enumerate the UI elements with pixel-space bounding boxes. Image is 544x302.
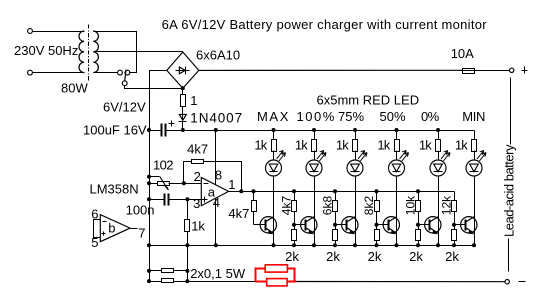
wire pin7 stub: [131, 228, 138, 230]
svg-text:6A 6V/12V Battery power charge: 6A 6V/12V Battery power charger with cur…: [162, 17, 488, 32]
label 1k: [419, 138, 432, 153]
trimmer R2 wiper arrow: [150, 177, 169, 191]
label 2k: [368, 249, 382, 264]
node: [147, 279, 151, 283]
resistor R14 1k: [436, 140, 441, 152]
label Lead-acid battery: [502, 144, 517, 237]
label pin3: [193, 196, 200, 211]
switch S1 lever: [125, 70, 126, 81]
wire: [33, 31, 85, 33]
label 6x5mm RED LED: [317, 92, 420, 107]
wire: [182, 107, 184, 115]
transistor Q1: [260, 217, 276, 234]
wire: [438, 131, 440, 140]
wire: [376, 212, 378, 225]
svg-text:6k8: 6k8: [321, 196, 335, 216]
capacitor C2 100n plates: [165, 194, 169, 206]
svg-text:4k7: 4k7: [228, 206, 249, 221]
wire: [314, 151, 316, 161]
node base: [375, 223, 379, 227]
wire: [33, 72, 85, 74]
op-amp U1b input tie: [94, 220, 101, 238]
wire: [253, 192, 255, 201]
wire: [150, 281, 162, 283]
wire: [94, 51, 183, 53]
resistor R30 2k: [452, 230, 457, 241]
wire: [294, 212, 296, 225]
svg-text:100%: 100%: [297, 109, 336, 124]
label 6x6A10: [196, 48, 240, 63]
node base: [333, 223, 337, 227]
resistor R10 1k: [272, 140, 277, 152]
wire: [150, 71, 167, 131]
wire: [376, 225, 378, 230]
node: [181, 128, 185, 132]
label 0%: [421, 109, 440, 124]
red resistor 0R1 b: [267, 279, 287, 286]
resistor R22 6k8: [333, 201, 338, 212]
capacitor C1 100uF plates: [162, 121, 175, 137]
resistor R1 1: [181, 95, 186, 107]
op-amp U1a minus sign: [204, 183, 209, 185]
op-amp U1a plus sign: [202, 197, 208, 203]
node: [452, 243, 456, 247]
wire: [396, 131, 398, 140]
label 2k: [445, 249, 459, 264]
label 12k: [440, 195, 454, 215]
wire: [355, 131, 357, 140]
wire: [355, 177, 357, 246]
resistor R15 1k: [472, 140, 477, 152]
label 10k: [404, 195, 418, 215]
wire: [454, 192, 456, 201]
transformer TR1 primary winding: [79, 31, 84, 73]
LED D6: [466, 151, 486, 177]
node base: [292, 223, 296, 227]
wire: [187, 200, 189, 220]
wire: [188, 281, 256, 283]
transistor Q5: [425, 217, 441, 234]
label 102: [153, 158, 173, 173]
svg-text:2k: 2k: [409, 249, 423, 264]
svg-text:102: 102: [153, 158, 173, 173]
resistor R31 0R1: [162, 279, 174, 283]
wire pin4: [215, 199, 217, 246]
label 80W: [61, 81, 88, 96]
svg-text:6x6A10: 6x6A10: [196, 48, 240, 63]
label pin6: [91, 206, 98, 221]
svg-text:1: 1: [228, 177, 235, 192]
transistor Q6: [461, 217, 477, 234]
red wire: [256, 269, 266, 282]
wire: [297, 281, 506, 283]
wire: [418, 192, 420, 201]
node base: [452, 223, 456, 227]
battery bracket line: [509, 78, 511, 272]
label 2k: [326, 249, 340, 264]
label 1: [190, 93, 197, 108]
node: [416, 243, 420, 247]
label 100%: [297, 109, 336, 124]
svg-text:4k7: 4k7: [280, 196, 294, 216]
node: [333, 189, 337, 193]
transistor Q4: [383, 217, 399, 234]
wire: [376, 241, 378, 246]
wire base: [419, 224, 430, 226]
label 2k: [409, 249, 423, 264]
wire: [199, 69, 463, 71]
svg-text:10A: 10A: [451, 46, 474, 61]
transformer TR1 core: [88, 25, 90, 82]
wire: [150, 270, 162, 272]
wire: [125, 86, 183, 89]
svg-text:LM358N: LM358N: [90, 182, 139, 197]
node: [147, 181, 151, 185]
fuse F1 10A: [460, 69, 510, 74]
wire base: [336, 224, 347, 226]
terminal mains L: [28, 29, 33, 34]
trimmer R2 102 body: [150, 182, 202, 186]
svg-text:Lead-acid battery: Lead-acid battery: [502, 144, 517, 237]
node: [214, 243, 218, 247]
wire base: [377, 224, 389, 226]
svg-text:80W: 80W: [61, 81, 88, 96]
svg-text:1k: 1k: [336, 138, 349, 153]
wire: [438, 177, 440, 246]
wire: [474, 131, 476, 140]
node emitter: [272, 243, 276, 247]
wire: [454, 241, 456, 246]
LED D1: [266, 151, 286, 177]
svg-text:1N4007: 1N4007: [190, 111, 243, 126]
wire: [335, 225, 337, 230]
node emitter: [472, 243, 476, 247]
label 8k2: [362, 196, 376, 216]
wire: [454, 225, 456, 230]
svg-text:0%: 0%: [421, 109, 440, 124]
wire: [273, 177, 275, 246]
resistor R21 4k7: [292, 201, 297, 212]
node emitter: [436, 243, 440, 247]
node: [185, 243, 189, 247]
wire op-amp output rail: [229, 191, 455, 193]
node: [375, 189, 379, 193]
label MIN: [462, 109, 485, 124]
node: [375, 243, 379, 247]
wire: [174, 270, 188, 272]
LED D5: [430, 151, 450, 177]
wire: [174, 281, 188, 283]
op-amp U1a: [201, 178, 228, 206]
label 1k: [254, 138, 267, 153]
wire: [418, 241, 420, 246]
node: [436, 128, 440, 132]
node: [395, 128, 399, 132]
node: [239, 189, 243, 193]
LED D4: [389, 151, 409, 177]
wire: [474, 151, 476, 161]
svg-text:6: 6: [91, 206, 98, 221]
wire: [396, 151, 398, 161]
svg-text:MIN: MIN: [462, 109, 485, 124]
svg-text:6x5mm RED LED: 6x5mm RED LED: [317, 92, 420, 107]
svg-text:2k: 2k: [326, 249, 340, 264]
label pin1: [228, 177, 235, 192]
resistor R20 4k7: [252, 201, 257, 212]
node: [147, 243, 151, 247]
svg-text:2k: 2k: [285, 249, 299, 264]
node emitter: [353, 243, 357, 247]
node: [353, 128, 357, 132]
label 100n: [126, 203, 155, 218]
bridge rectifier 6x6A10 body: [167, 52, 199, 88]
svg-text:4: 4: [213, 195, 220, 210]
wire base: [295, 224, 306, 226]
wire: [169, 199, 202, 201]
resistor R29 2k: [416, 230, 421, 241]
svg-text:8k2: 8k2: [362, 196, 376, 216]
wire: [418, 212, 420, 225]
terminal mains N: [28, 70, 33, 75]
label 1k: [336, 138, 349, 153]
node: [214, 128, 218, 132]
label 1k: [377, 138, 390, 153]
svg-text:1k: 1k: [254, 138, 267, 153]
wire bottom rail: [150, 245, 475, 247]
svg-text:2x0,1 5W: 2x0,1 5W: [190, 266, 246, 281]
svg-text:10k: 10k: [404, 195, 418, 215]
label plus: [522, 67, 528, 74]
label LM358N: [90, 182, 139, 197]
wire: [376, 192, 378, 201]
svg-text:12k: 12k: [440, 195, 454, 215]
label pin4: [213, 195, 220, 210]
svg-text:50%: 50%: [380, 109, 406, 124]
svg-text:MAX: MAX: [257, 109, 290, 124]
label 6k8: [321, 196, 335, 216]
resistor R13 1k: [395, 140, 400, 152]
label 4k7: [187, 142, 208, 157]
LED D2: [306, 151, 326, 177]
switch S1 contact: [125, 70, 130, 75]
svg-text:b: b: [108, 221, 115, 236]
wire base: [455, 224, 466, 226]
resistor R4 4k7 feedback: [192, 160, 204, 164]
red resistor 0R1 a: [265, 265, 287, 272]
resistor R23 8k2: [375, 201, 380, 212]
wire: [335, 192, 337, 201]
wire: [314, 131, 316, 140]
node emitter: [395, 243, 399, 247]
svg-text:7: 7: [138, 226, 145, 241]
terminal battery minus: [505, 280, 509, 284]
svg-text:1k: 1k: [295, 138, 308, 153]
wire: [454, 212, 456, 225]
label 1N4007: [190, 111, 243, 126]
svg-text:5: 5: [91, 235, 98, 250]
node: [147, 175, 151, 179]
node: [185, 279, 189, 283]
node base: [416, 223, 420, 227]
resistor R30 0R1: [162, 269, 174, 273]
label pin2: [194, 169, 201, 184]
wire: [294, 192, 296, 201]
transformer TR1 secondary winding: [93, 31, 98, 73]
wire: [187, 232, 189, 282]
svg-text:6V/12V: 6V/12V: [103, 100, 146, 115]
label 4k7: [228, 206, 249, 221]
transistor Q3: [342, 217, 358, 234]
wire feedback: [184, 162, 192, 184]
wire: [253, 212, 255, 225]
svg-text:230V 50Hz: 230V 50Hz: [14, 43, 78, 58]
svg-text:1k: 1k: [419, 138, 432, 153]
wire: [294, 225, 296, 230]
node pin3 junction: [185, 197, 189, 201]
title text: [162, 17, 488, 32]
wire: [314, 177, 316, 246]
resistor R26 2k: [292, 230, 297, 241]
label 2k: [285, 249, 299, 264]
label 1k: [191, 219, 205, 234]
label 75%: [338, 109, 364, 124]
resistor R12 1k: [353, 140, 358, 152]
wire: [150, 199, 165, 201]
svg-text:100n: 100n: [126, 203, 155, 218]
label 6V/12V: [103, 100, 146, 115]
op-amp U1b plus sign: [102, 232, 106, 236]
node: [147, 197, 151, 201]
label pin5: [91, 235, 98, 250]
wire: [355, 151, 357, 161]
svg-text:2k: 2k: [368, 249, 382, 264]
label MAX: [257, 109, 290, 124]
wire pin8: [215, 131, 217, 185]
resistor R28 2k: [375, 230, 380, 241]
node: [272, 128, 276, 132]
wire: [94, 72, 118, 74]
wire: [418, 225, 420, 230]
label 50%: [380, 109, 406, 124]
wire: [294, 241, 296, 246]
label 1k: [455, 138, 468, 153]
label pin7: [138, 226, 145, 241]
wire: [273, 151, 275, 161]
wire: [335, 212, 337, 225]
svg-text:1k: 1k: [377, 138, 390, 153]
node: [147, 128, 151, 132]
svg-text:2: 2: [194, 169, 201, 184]
label 4k7: [280, 196, 294, 216]
node bridge bottom: [181, 86, 185, 90]
switch S1 contact: [118, 70, 123, 75]
switch S1 pole: [122, 81, 127, 86]
LED D3: [347, 151, 367, 177]
terminal battery plus: [510, 68, 514, 72]
op-amp U1b: [100, 215, 130, 242]
wire feedback: [204, 162, 242, 192]
resistor R3 1k: [185, 220, 190, 232]
resistor R24 10k: [416, 201, 421, 212]
node: [252, 189, 256, 193]
node: [185, 269, 189, 273]
svg-text:1k: 1k: [191, 219, 205, 234]
resistor R11 1k: [312, 140, 317, 152]
wire: [94, 32, 137, 73]
wire: [396, 177, 398, 246]
wire: [438, 151, 440, 161]
node: [292, 189, 296, 193]
svg-text:2k: 2k: [445, 249, 459, 264]
label 100uF 16V: [83, 123, 147, 138]
op-amp U1b minus sign: [103, 221, 107, 223]
svg-text:4k7: 4k7: [187, 142, 208, 157]
wire base: [254, 224, 266, 226]
wire: [273, 131, 275, 140]
node: [416, 189, 420, 193]
node: [292, 243, 296, 247]
label 10A: [451, 46, 474, 61]
svg-text:1k: 1k: [455, 138, 468, 153]
resistor R27 2k: [333, 230, 338, 241]
red wire: [288, 269, 295, 282]
red wire: [256, 281, 297, 283]
svg-text:1: 1: [190, 93, 197, 108]
node pin2 junction: [182, 181, 186, 185]
node: [147, 269, 151, 273]
node emitter: [312, 243, 316, 247]
svg-text:100uF 16V: 100uF 16V: [83, 123, 147, 138]
wire supply rail: [150, 130, 475, 132]
label 230V 50Hz: [14, 43, 78, 58]
label 2x0,1 5W: [190, 266, 246, 281]
svg-text:75%: 75%: [338, 109, 364, 124]
node: [312, 128, 316, 132]
wire: [182, 89, 184, 95]
svg-text:3: 3: [193, 196, 200, 211]
label minus: [519, 281, 526, 283]
label 1k: [295, 138, 308, 153]
diode D7 1N4007: [179, 114, 187, 130]
label pin8: [215, 168, 222, 183]
wire left rail: [149, 71, 151, 282]
node: [333, 243, 337, 247]
bridge rectifier diode symbol: [176, 67, 190, 75]
wire: [474, 177, 476, 246]
wire: [335, 241, 337, 246]
transistor Q2: [301, 217, 317, 234]
resistor R25 12k: [452, 201, 457, 212]
